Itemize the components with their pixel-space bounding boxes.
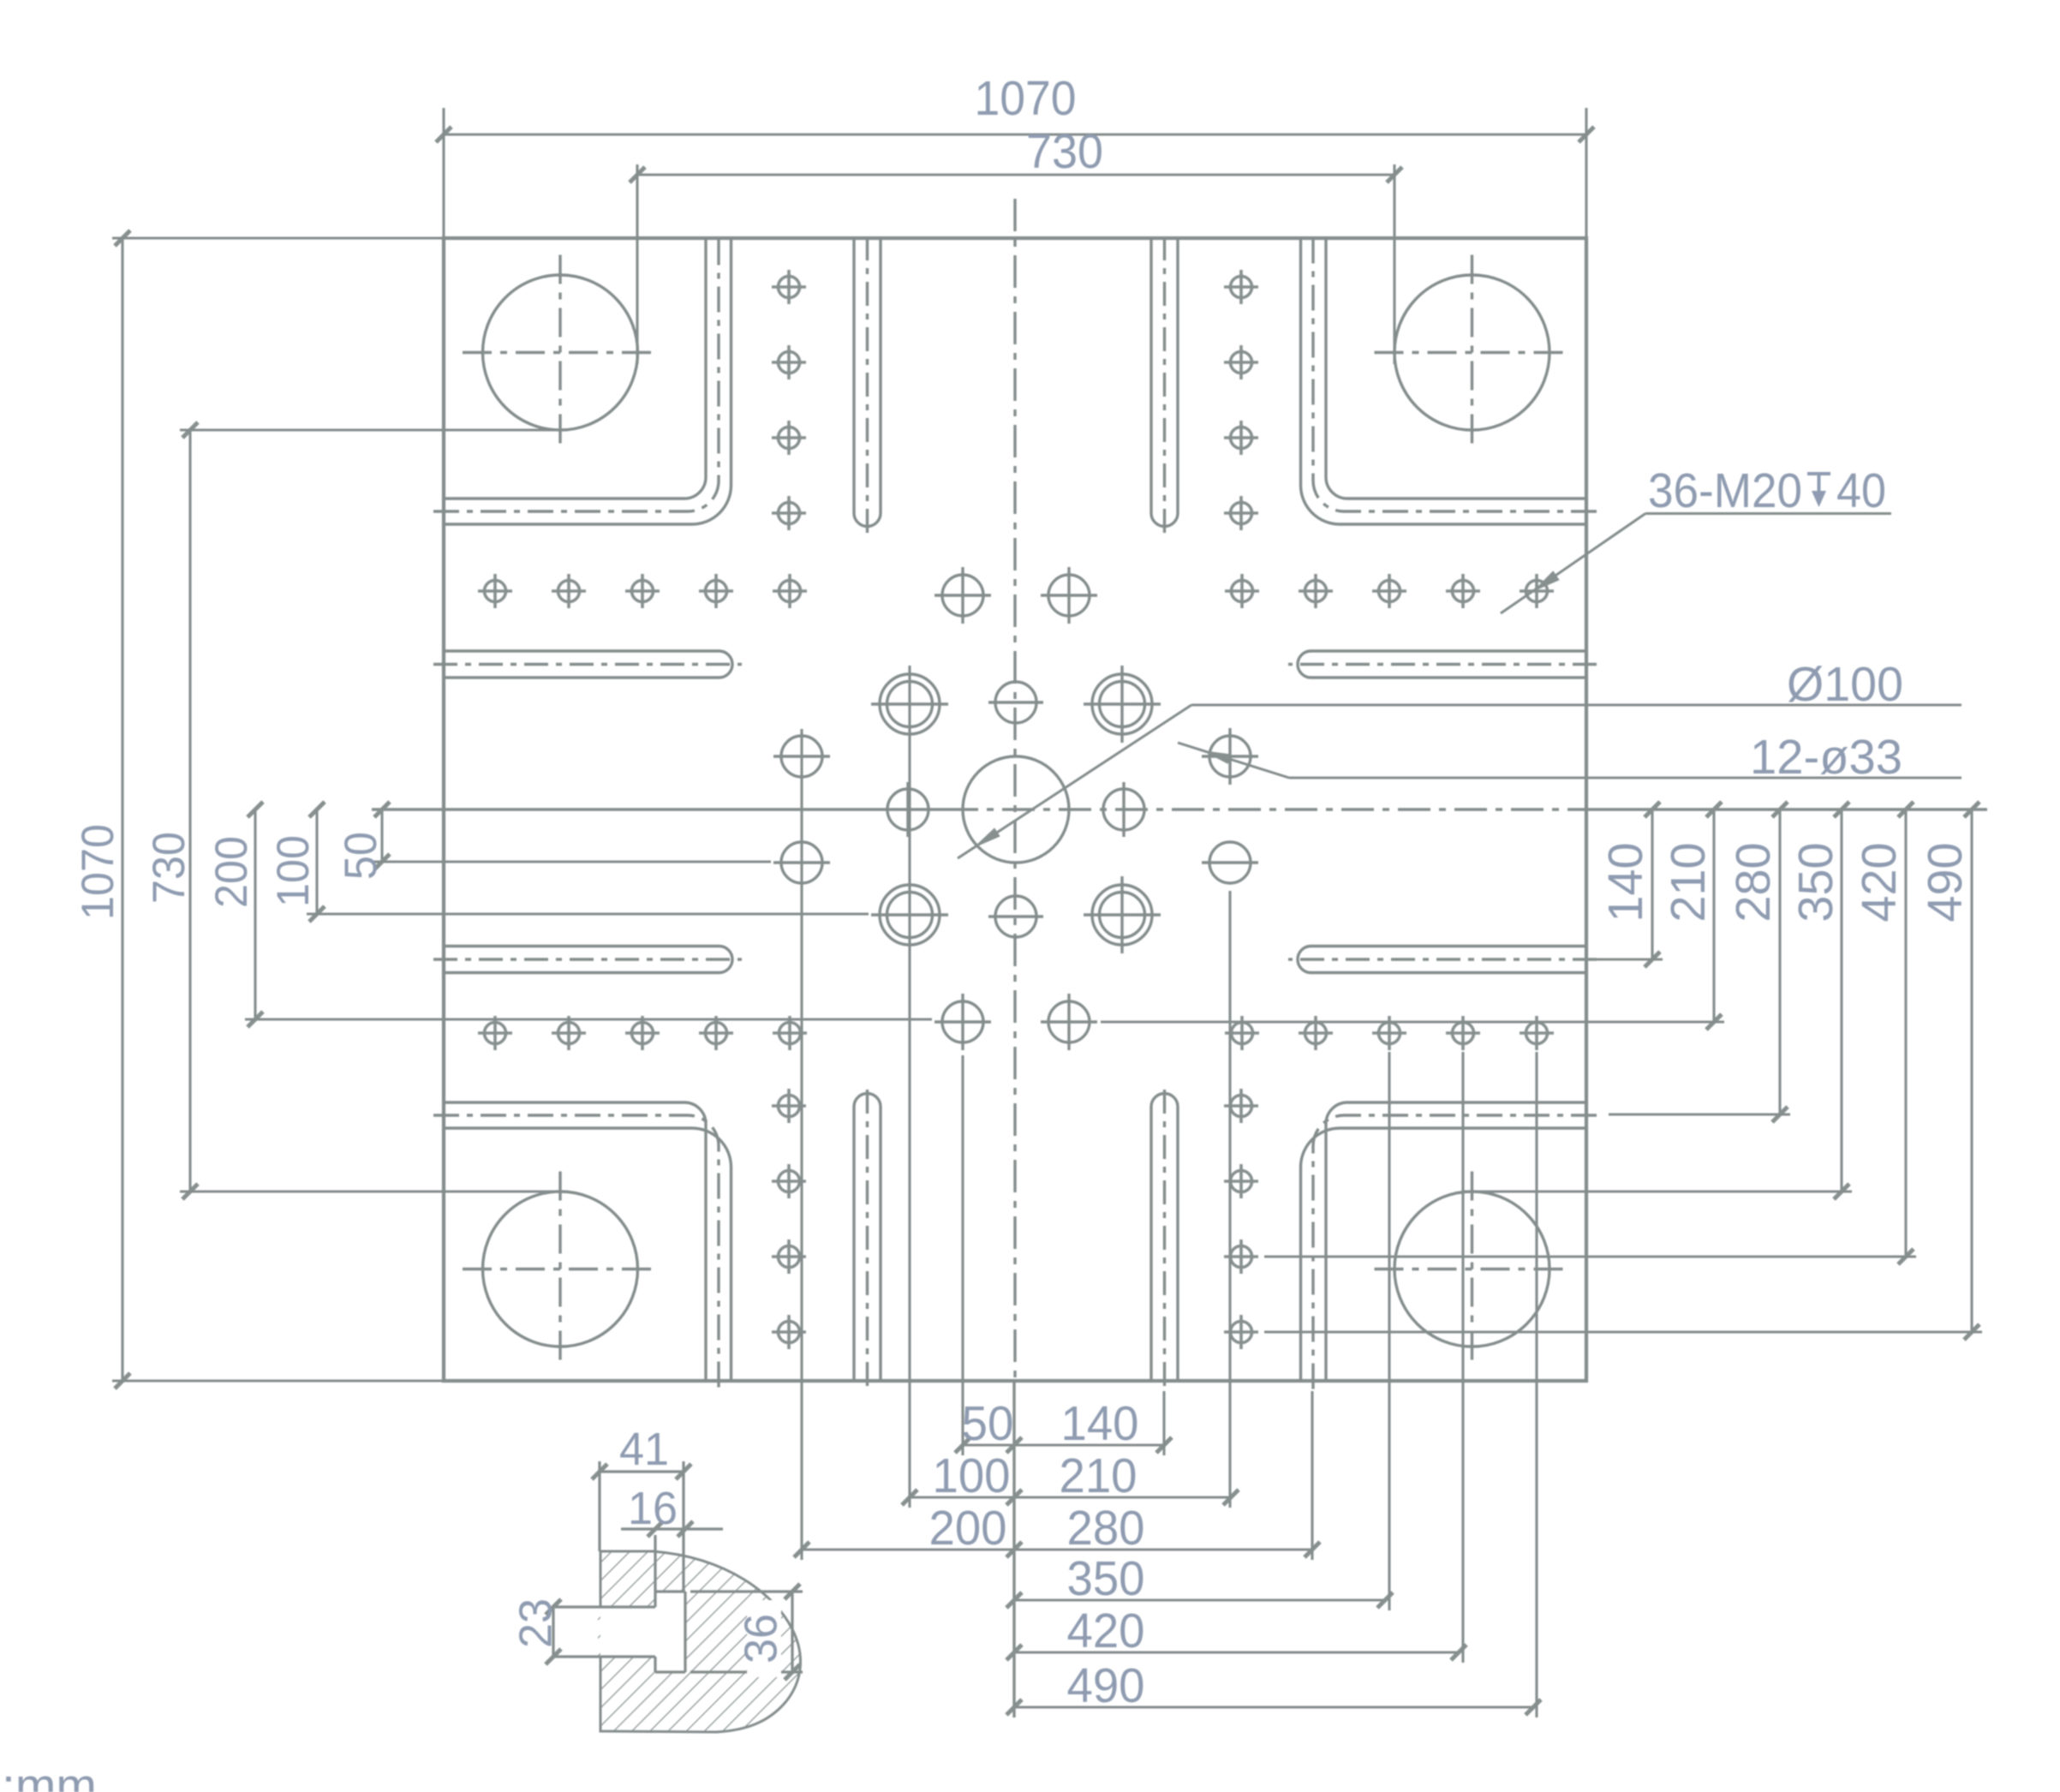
M20 hole (578,690) (478, 574, 512, 608)
svg-text:420: 420 (1067, 1604, 1145, 1658)
M20 hole (921,599) (772, 496, 806, 530)
plate outline (444, 238, 1586, 1381)
svg-text:100: 100 (933, 1449, 1011, 1503)
dim 1070 top: extension lines (442, 108, 445, 238)
svg-text:36: 36 (735, 1614, 786, 1664)
svg-text:200: 200 (206, 836, 257, 908)
leader 12-dia33 (1289, 777, 1961, 780)
tie-bar hole BR (1394, 1192, 1549, 1347)
M20 hole grid (36 holes) (478, 270, 1554, 1349)
M20 hole (1449,511) (1224, 421, 1258, 455)
counterbored hole TR of center (1084, 666, 1161, 743)
svg-text:100: 100 (268, 835, 319, 907)
right dim group datum already drawn; dim 140 right (1651, 809, 1653, 959)
svg-text:1070: 1070 (975, 71, 1077, 126)
M20 hole (921,1291) (772, 1089, 806, 1123)
M20 hole (1449,1467) (1224, 1239, 1258, 1274)
section detail of T-slot (546, 1461, 803, 1732)
dim 730 top: extension lines (636, 164, 638, 364)
svg-text:23: 23 (510, 1598, 561, 1648)
bottom 420 extension from M20 hole (1461, 1052, 1464, 1663)
dia33 hole left col upper (773, 736, 830, 777)
svg-text:730: 730 (1026, 124, 1103, 179)
dia33 hole right col upper (1202, 728, 1258, 785)
bottom dim row 2: 100 / 210 (910, 1496, 1231, 1498)
M20 hole (1450,1206) (1225, 1016, 1259, 1050)
M20 hole (1794,1206) (1520, 1016, 1554, 1050)
svg-text:1070: 1070 (73, 824, 123, 920)
dim 50 left: dimension line (380, 809, 383, 862)
dim 200 left: dimension line (254, 809, 256, 1019)
T-slot cavity front top (654, 1592, 656, 1607)
svg-text:40: 40 (1836, 463, 1886, 518)
horizontal centerline datum extension right (1586, 808, 1987, 810)
T-slot cavity front bottom (654, 1657, 656, 1672)
M20 hole (922,1206) (773, 1016, 807, 1050)
dim 730 left: dimension line (188, 430, 191, 1192)
svg-text:140: 140 (1061, 1396, 1139, 1451)
dia33 hole left col lower (773, 842, 830, 883)
bottom dim row 1: 50 / 140 (963, 1443, 1164, 1446)
bottom 140 extension from slot centerline (1162, 1391, 1165, 1455)
counterbored hole TL of center (871, 674, 948, 734)
dim 420 right (1904, 809, 1907, 1257)
svg-text:210: 210 (1060, 1449, 1137, 1503)
M20 hole (1708,690) (1446, 574, 1480, 608)
svg-text:50: 50 (962, 1396, 1014, 1451)
T-slot corner TL outer edge (444, 238, 731, 524)
svg-text:16: 16 (628, 1483, 678, 1534)
T-slot vertical top-right (1151, 238, 1178, 527)
dim 200 left: extension line (245, 1018, 932, 1020)
bottom 280 extension from corner slot centerline (1311, 1391, 1313, 1560)
T-slot cavity top (655, 1590, 685, 1592)
T-slot vertical bottom-left (854, 1094, 881, 1382)
dim 50 left: extension line (372, 860, 771, 863)
dim 730 left: extension lines (180, 428, 567, 431)
svg-text:490: 490 (1067, 1658, 1145, 1713)
section hatch fill (598, 1551, 801, 1732)
dim 41 section (600, 1470, 684, 1472)
M20 hole (1449,423) (1224, 345, 1258, 379)
dim 100 left: dimension line (315, 809, 318, 914)
bottom dim row 4: 350 (1014, 1598, 1385, 1601)
T-slot horizontal mid-right lower (1298, 947, 1586, 973)
M20 hole (1622,690) (1372, 574, 1406, 608)
dim 36 section (791, 1592, 793, 1672)
bottom 200 extension from dia33 left column (800, 729, 803, 1560)
T-slot corner BR centerline (1313, 1115, 1597, 1391)
axis hole left (887, 782, 928, 837)
T-slot horizontal mid-right upper (1298, 651, 1586, 678)
depth symbol for 36-M20 leader (1807, 474, 1830, 507)
T-slot corner BL outer edge (444, 1128, 731, 1381)
M20 hole (836,1206) (699, 1016, 733, 1050)
svg-text:730: 730 (144, 832, 194, 904)
central locating hole D100 (963, 756, 1069, 863)
T-slot vertical bottom-right (1151, 1094, 1178, 1382)
T-slot cavity bottom (655, 1670, 685, 1673)
M20 hole (921,511) (772, 421, 806, 455)
bottom dim row 3: 200 / 280 (802, 1548, 1312, 1550)
T-slot corner TL centerline (433, 235, 719, 511)
T-slot corner BL inner edge (444, 1102, 706, 1381)
svg-text:36-M20: 36-M20 (1648, 463, 1802, 518)
svg-text:12-ø33: 12-ø33 (1750, 730, 1902, 785)
axis hole bottom (988, 896, 1043, 937)
dia33 hole right col lower (1202, 842, 1258, 883)
axis hole top (988, 682, 1043, 723)
tie-bar hole TR (1394, 275, 1549, 430)
leader D100 (1191, 704, 1961, 707)
M20 hole (578,1206) (478, 1016, 512, 1050)
M20 hole (1622,1206) (1372, 1016, 1406, 1050)
bottom 350 extension from M20 hole (1388, 1052, 1390, 1610)
T-slot horizontal mid-left lower (444, 947, 732, 973)
M20 hole (922,690) (773, 574, 807, 608)
M20 hole (750,690) (625, 574, 660, 608)
bottom 490 extension from M20 hole (1535, 1052, 1538, 1717)
dia33 hole top pair left (934, 567, 991, 624)
svg-text:210: 210 (1661, 843, 1716, 923)
M20 hole (1449,1291) (1224, 1089, 1258, 1123)
T-slot horizontal mid-left upper (444, 651, 732, 678)
tie-bar hole BL (483, 1192, 638, 1347)
svg-text:350: 350 (1788, 843, 1843, 923)
bottom 210 extension from dia33 right column (1228, 891, 1231, 1508)
dim 23 section (552, 1607, 554, 1657)
dia33 hole bottom pair right (1041, 994, 1097, 1050)
M20 hole (1708,1206) (1446, 1016, 1480, 1050)
M20 hole (921,423) (772, 345, 806, 379)
bottom 50 extension from dia33 hole (961, 1055, 964, 1455)
axis hole right (1103, 782, 1144, 837)
M20 hole (1449,599) (1224, 496, 1258, 530)
M20 hole (664,1206) (552, 1016, 586, 1050)
dim 1070 left: dimension line (121, 238, 123, 1381)
M20 hole (1794,690) (1520, 574, 1554, 608)
tie-bar hole TL (483, 275, 638, 430)
svg-text:280: 280 (1067, 1501, 1145, 1556)
dim 100 left: extension line (307, 912, 869, 915)
section body outline with break line (600, 1551, 801, 1732)
dim 210 right (1712, 809, 1715, 1022)
M20 hole (750,1206) (625, 1016, 660, 1050)
svg-text:200: 200 (929, 1501, 1007, 1556)
T-slot corner TR outer edge (1301, 238, 1587, 524)
T-slot corner TL inner edge (444, 238, 706, 499)
svg-text:41: 41 (619, 1424, 669, 1475)
svg-text:420: 420 (1852, 843, 1907, 923)
plate horizontal centerline (946, 808, 1586, 810)
T-slot corner BL centerline (433, 1115, 719, 1391)
M20 hole (921,335) (772, 270, 806, 304)
dia33 hole top pair right (1041, 567, 1097, 624)
dim 490 right (1970, 809, 1973, 1332)
M20 hole (1536,690) (1299, 574, 1333, 608)
svg-text:140: 140 (1598, 843, 1653, 923)
dim 730 top: dimension line (637, 173, 1394, 176)
T-slot neck top wall (555, 1605, 655, 1608)
M20 hole (1450,690) (1225, 574, 1259, 608)
M20 hole (1536,1206) (1299, 1016, 1333, 1050)
text 36 white backing (747, 1600, 781, 1677)
plate vertical centerline (1013, 199, 1016, 1381)
T-slot corner TR inner edge (1326, 238, 1586, 499)
T-slot vertical top-left (854, 238, 881, 527)
dim 350 right (1840, 809, 1842, 1192)
leader 36-M20 (1645, 512, 1891, 515)
counterbored hole BL of center (871, 885, 948, 945)
dim 280 right (1778, 809, 1781, 1114)
T-slot corner TR centerline (1313, 235, 1597, 511)
M20 hole (1449,1379) (1224, 1164, 1258, 1198)
T-slot corner BR inner edge (1326, 1102, 1586, 1381)
M20 hole (1449,1555) (1224, 1315, 1258, 1349)
M20 hole (1449,335) (1224, 270, 1258, 304)
plate vertical centerline extension below (1012, 1381, 1015, 1717)
svg-text:Ø100: Ø100 (1787, 657, 1903, 712)
svg-text:350: 350 (1067, 1551, 1145, 1606)
dia33 hole bottom pair left (934, 994, 991, 1050)
bottom dim row 6: 490 (1014, 1705, 1533, 1708)
M20 hole (921,1467) (772, 1239, 806, 1274)
dim 16 section (621, 1527, 723, 1530)
svg-text:280: 280 (1726, 843, 1781, 923)
bottom dim row 5: 420 (1014, 1651, 1459, 1653)
dim 1070 left: extension lines (112, 236, 444, 239)
M20 hole (664,690) (552, 574, 586, 608)
bottom 100 extension from counterbored hole (908, 666, 911, 1508)
counterbored hole BR of center (1084, 876, 1161, 953)
M20 hole (921,1555) (772, 1315, 806, 1349)
dim 1070 top: dimension line (444, 133, 1586, 135)
M20 hole (836,690) (699, 574, 733, 608)
svg-text::mm: :mm (2, 1759, 97, 1792)
svg-text:490: 490 (1918, 843, 1973, 923)
M20 hole (921,1379) (772, 1164, 806, 1198)
T-slot neck bottom wall (555, 1655, 655, 1658)
svg-text:50: 50 (336, 832, 386, 880)
horizontal centerline extension left to 50/100/200 dims (372, 808, 946, 810)
T-slot cavity back (684, 1592, 686, 1672)
T-slot corner BR outer edge (1301, 1128, 1587, 1381)
